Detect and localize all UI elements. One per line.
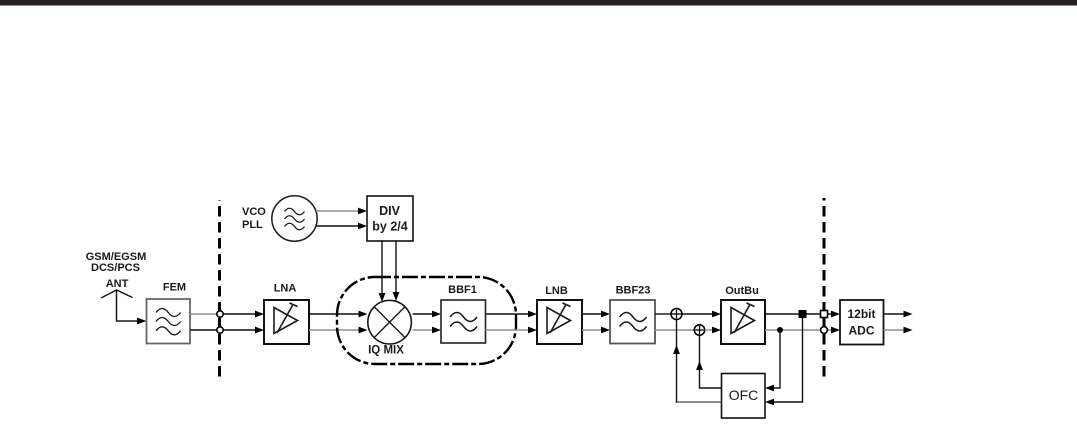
feedback wire I tap to OFC [765,318,803,405]
junction dot (Q tap) [777,327,783,333]
svg-text:DIV: DIV [379,204,401,218]
wire antenna to FEM [117,290,147,324]
svg-text:by 2/4: by 2/4 [372,220,407,234]
feedback wire OFC to summer Q [696,336,721,388]
dashed rounded container (mixer block) [337,277,516,364]
svg-text:12bit: 12bit [847,307,875,321]
svg-text:LNB: LNB [545,285,568,297]
wire FEM to LNA (Q path) [190,327,264,334]
svg-text:BBF23: BBF23 [616,285,651,297]
pin OUT Q (round pad) [821,327,828,334]
wire LNA to mixer (Q path) [309,327,368,334]
wire OutBu to ADC (I path) [765,311,840,318]
pin OUT I (square pad) [821,311,828,318]
wire BBF1 to LNB (I path) [486,311,538,318]
filter BBF1 [441,300,486,343]
feedback wire OFC to summer I [673,320,721,403]
svg-text:OFC: OFC [729,387,759,403]
wire VCO to DIV (lower) [316,223,367,230]
wire mixer to BBF1 (Q path) [413,327,442,334]
svg-text:BBF1: BBF1 [448,284,477,296]
wire mixer to BBF1 (I path) [413,311,442,318]
wire LNB to BBF23 (Q path) [582,327,610,334]
wire DIV to mixer (LO I) [379,241,386,302]
wire BBF23 to summer I [655,313,671,315]
amplifier LNA [264,300,309,344]
junction square (I tap) [799,310,807,318]
amplifier LNB [537,300,582,344]
block DIV by 2/4 [367,196,413,241]
svg-text:IQ MIX: IQ MIX [368,345,404,357]
wire summer I to OutBu [682,311,721,318]
amplifier OutBu [721,300,765,344]
wire BBF1 to LNB (Q path) [486,327,538,334]
block 12bit ADC [840,300,884,345]
svg-text:LNA: LNA [274,283,297,295]
svg-text:FEM: FEM [163,282,186,294]
chip boundary right (dashed) [823,198,826,379]
filter BBF23 [610,300,655,344]
wire FEM to LNA (I path) [190,311,264,318]
svg-text:ANT: ANT [106,278,129,290]
wire summer Q to OutBu [705,327,721,334]
chip boundary left (dashed) [218,200,221,382]
svg-text:DCS/PCS: DCS/PCS [91,262,140,274]
block FEM [147,299,191,344]
block OFC [722,374,766,419]
wire OutBu to ADC (Q path) [765,327,840,334]
wire LNA to mixer (I path) [309,311,368,318]
antenna ANT [101,290,133,298]
wire LNB to BBF23 (I path) [582,311,610,318]
oscillator VCO/PLL [272,196,317,241]
pin RFIN I [217,311,223,317]
wire DIV to mixer (LO Q) [393,241,400,301]
wire BBF23 to summer Q [655,329,694,331]
mixer IQ MIX [368,300,412,344]
header bar [0,0,1077,6]
svg-text:OutBu: OutBu [725,285,759,297]
svg-text:VCO: VCO [242,206,266,218]
svg-text:ADC: ADC [849,324,875,338]
summer (Q path) [694,325,704,335]
feedback wire Q tap to OFC [765,330,780,391]
pin RFIN Q [217,327,223,333]
wire VCO to DIV (upper) [316,208,367,215]
svg-text:PLL: PLL [242,219,263,231]
wire ADC output Q [884,327,913,334]
summer (I path) [671,309,682,320]
wire ADC output I [884,311,913,318]
